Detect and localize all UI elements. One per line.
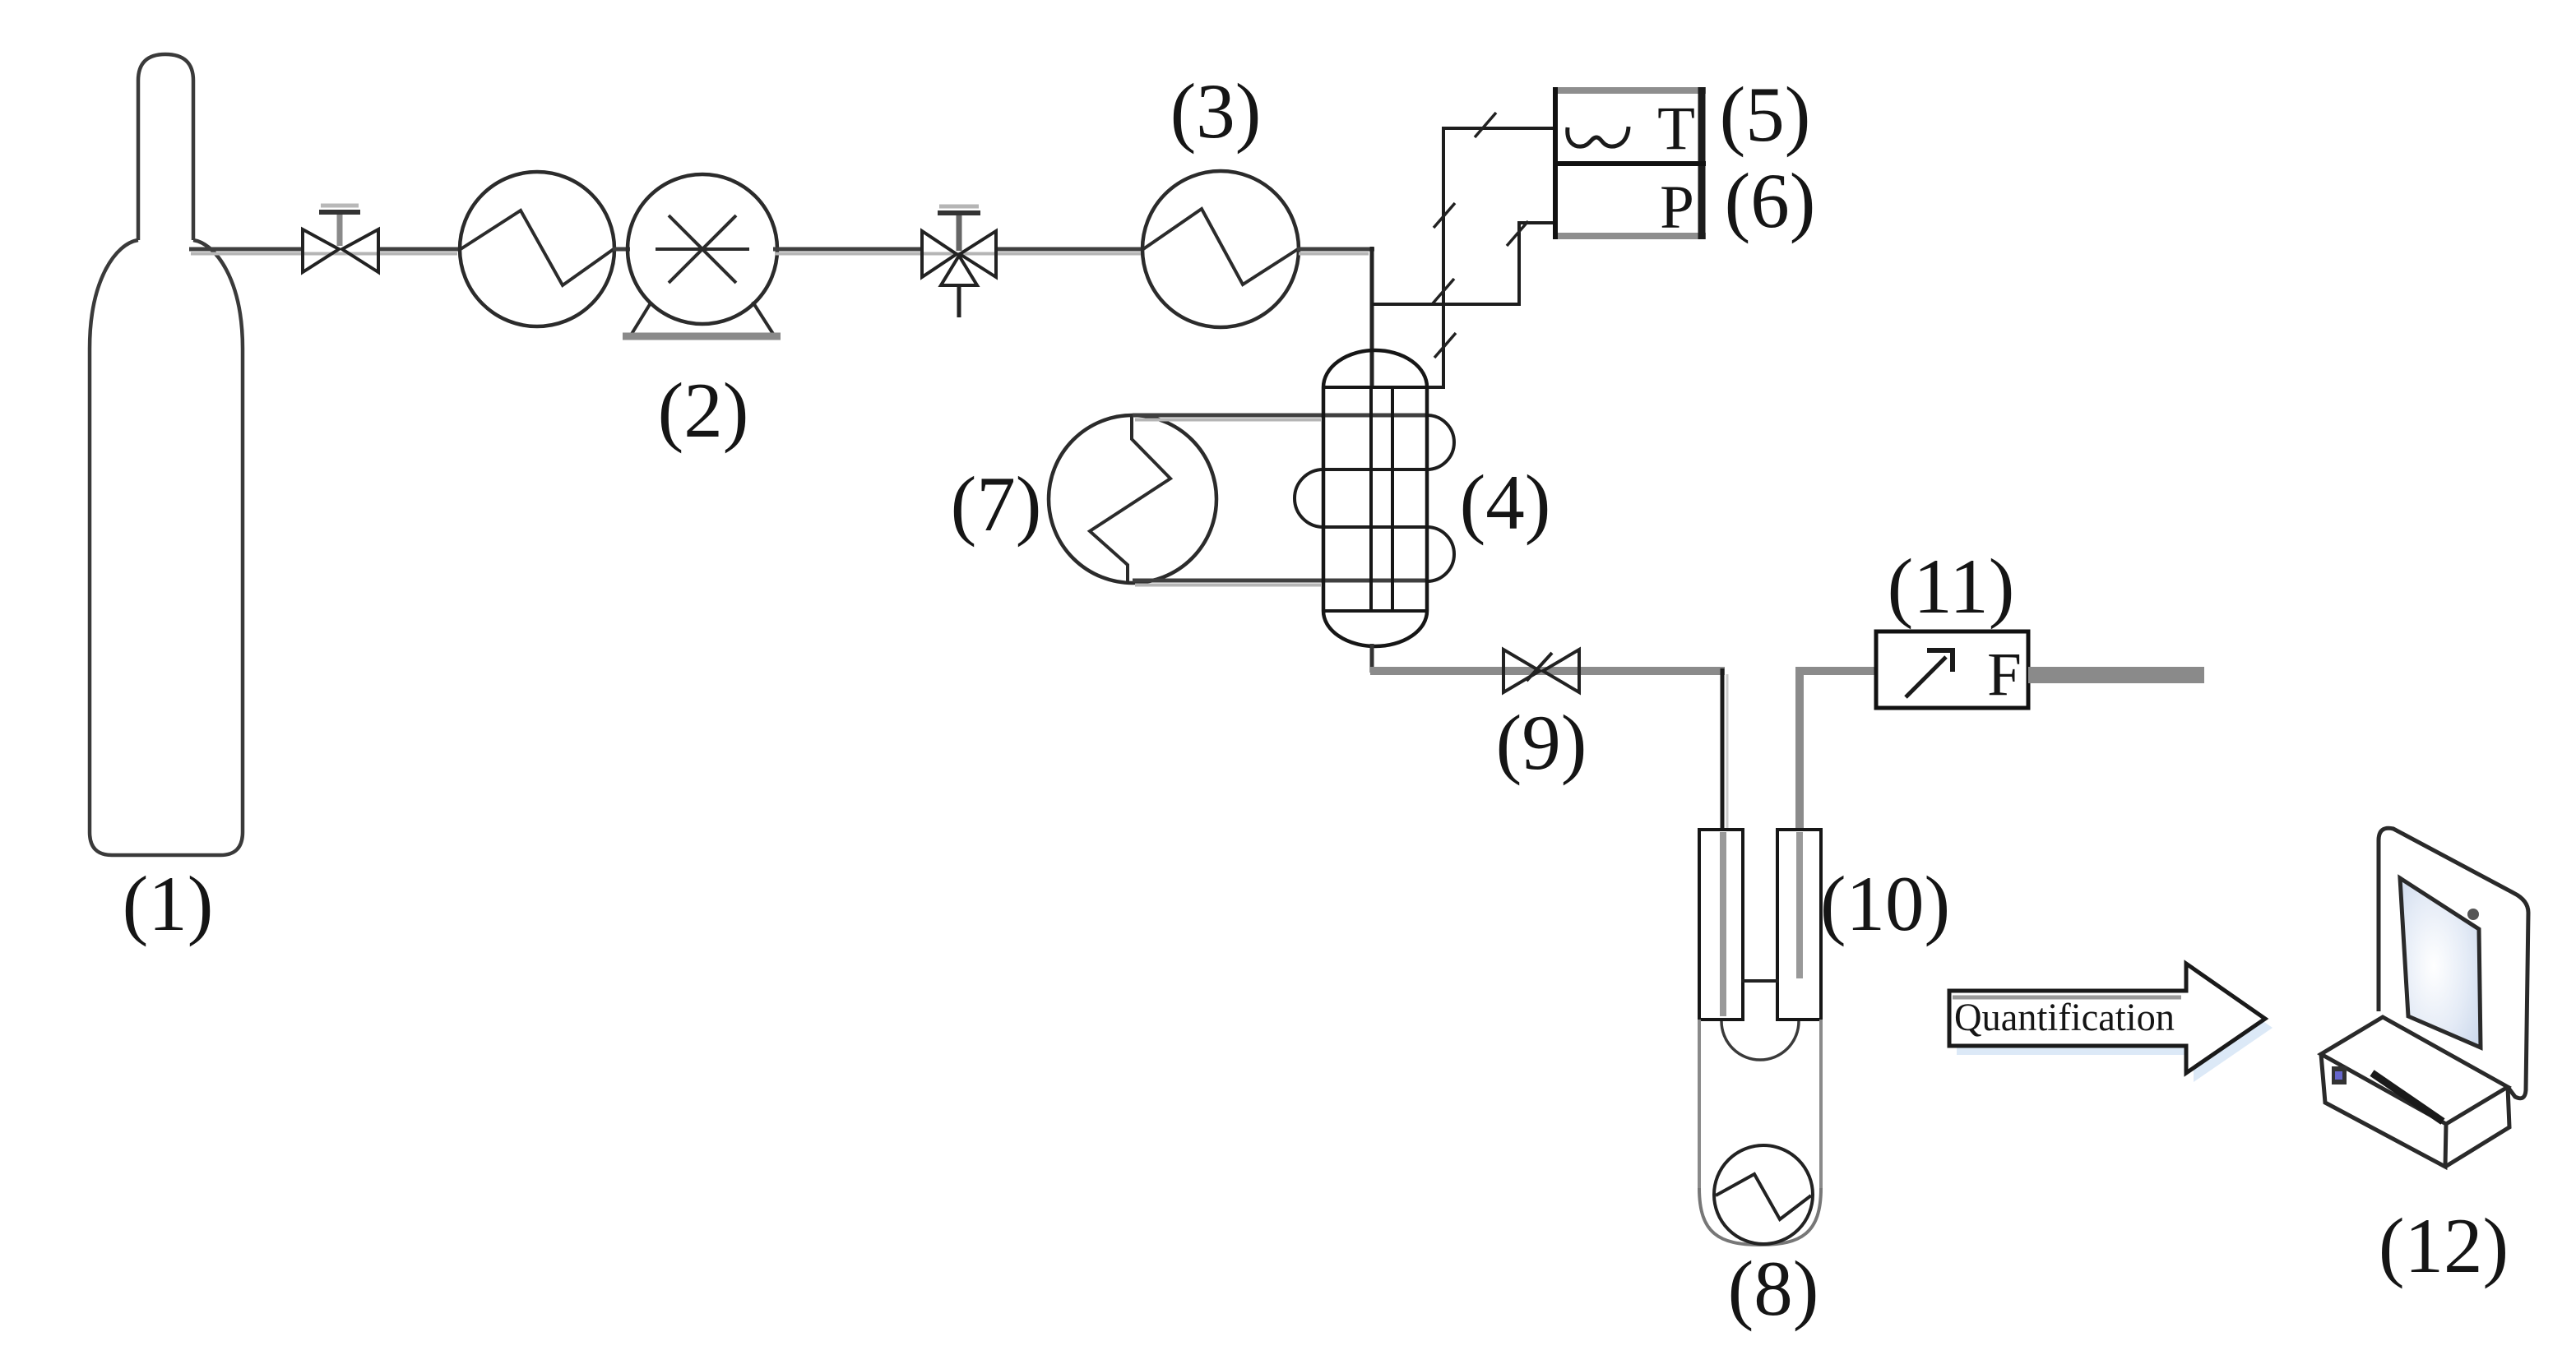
capillary break tick b — [1434, 203, 1455, 228]
wire: three-way valve to heater — [998, 247, 1144, 252]
monitor slab — [2379, 828, 2528, 1098]
wire: valve to heat exchanger — [380, 247, 461, 252]
valve V1 (shutoff valve after cylinder) — [303, 206, 378, 272]
trap inner tube right — [1777, 830, 1821, 1020]
svg-text:(1): (1) — [123, 860, 214, 947]
wire: trap outlet riser — [1795, 667, 1804, 830]
svg-text:(5): (5) — [1720, 71, 1811, 158]
heater (3) — [1142, 171, 1299, 327]
svg-text:Quantification: Quantification — [1954, 996, 2175, 1039]
svg-text:(4): (4) — [1460, 459, 1551, 546]
svg-text:(10): (10) — [1820, 860, 1950, 947]
pump (2) — [623, 174, 781, 336]
capillary break tick e — [1507, 221, 1528, 246]
svg-text:(6): (6) — [1725, 157, 1816, 244]
wire: flow meter outlet — [2028, 667, 2204, 683]
svg-text:F: F — [1987, 641, 2022, 709]
reactor vessel (4) — [1323, 350, 1427, 646]
svg-text:(12): (12) — [2379, 1202, 2509, 1289]
wire: thermocouple line to reactor — [1425, 127, 1555, 387]
power button — [2332, 1066, 2347, 1084]
valve (9) — [1503, 650, 1579, 692]
base front face — [2321, 1054, 2446, 1167]
circulator (7) — [1049, 415, 1216, 584]
gas cylinder (1) — [90, 54, 243, 855]
svg-text:(7): (7) — [951, 460, 1042, 548]
trap outer vessel — [1698, 1020, 1701, 1188]
flow meter (11) — [1876, 631, 2028, 709]
wire: reactor bottom outlet — [1370, 644, 1374, 673]
wire: heater to reactor feed corner — [1297, 249, 1374, 254]
wire: valve to trap downcomer — [1540, 667, 1725, 675]
svg-text:(11): (11) — [1888, 543, 2015, 630]
wire: feed down-pipe into reactor — [1370, 247, 1374, 387]
svg-text:(9): (9) — [1496, 699, 1587, 786]
svg-text:T: T — [1657, 95, 1695, 163]
wire: pipe cylinder to valve — [189, 249, 457, 254]
base top face — [2321, 1017, 2508, 1124]
wire: coil return line (bottom) — [1133, 580, 1427, 585]
capillary break tick a — [1475, 113, 1496, 137]
cold trap (10) — [1699, 830, 1821, 1245]
svg-text:(8): (8) — [1728, 1245, 1819, 1332]
chiller (8) — [1714, 1145, 1813, 1244]
wire: coil supply line (top) — [1133, 415, 1427, 420]
svg-text:(3): (3) — [1170, 67, 1262, 155]
svg-text:(2): (2) — [658, 367, 749, 454]
trap tube gas lines — [1720, 832, 1726, 1016]
trap H bridge — [1741, 979, 1779, 983]
wire: instrument tee branch — [1372, 303, 1521, 306]
power dot — [2467, 909, 2479, 920]
svg-text:P: P — [1660, 173, 1694, 242]
three-way valve — [922, 206, 996, 317]
heat exchanger HX-A (cooler before pump) — [460, 172, 614, 326]
wire: pressure tap line — [1517, 221, 1555, 306]
wire: HX-A to pump — [613, 247, 630, 252]
computer (12) — [2321, 828, 2528, 1167]
capillary break tick d — [1434, 333, 1456, 358]
base right face — [2445, 1087, 2509, 1167]
heating coil around reactor — [1295, 415, 1454, 581]
wire: pump to three-way valve — [773, 249, 1142, 254]
quantification arrow — [1949, 964, 2273, 1082]
floppy slot — [2372, 1073, 2443, 1121]
capillary break tick c — [1433, 279, 1454, 303]
temperature indicator box (5) — [1553, 87, 1706, 242]
trap inner tube left — [1699, 830, 1743, 1020]
trap U-bend meniscus — [1721, 1021, 1799, 1060]
reactor inner tube — [1369, 387, 1373, 611]
wire: trap inlet downcomer — [1721, 668, 1725, 830]
